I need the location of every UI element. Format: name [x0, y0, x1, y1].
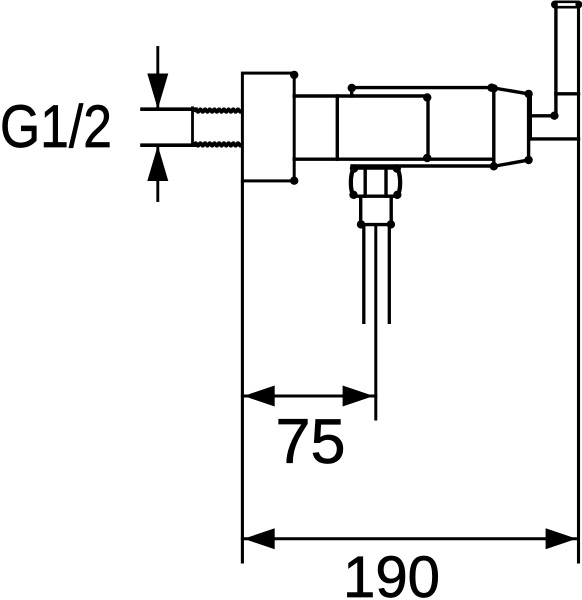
svg-text:190: 190 — [343, 545, 440, 600]
svg-text:G1/2: G1/2 — [0, 92, 112, 160]
svg-text:75: 75 — [276, 407, 346, 477]
